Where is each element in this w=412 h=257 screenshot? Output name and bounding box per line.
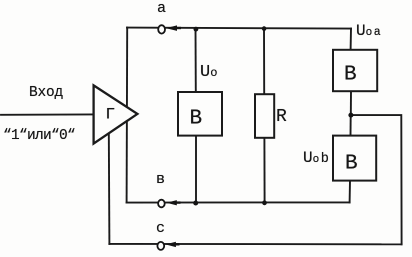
wire block B1 to node в rail bbox=[195, 136, 197, 203]
resistor R label bbox=[276, 107, 287, 127]
wire left vertical from top rail to node в rail bbox=[126, 28, 129, 203]
op-amp U1 generator Г bbox=[94, 85, 138, 143]
wire top rail node a bbox=[127, 28, 351, 29]
wire junction to right edge and down to node c rail bbox=[351, 115, 402, 244]
wire vertical top rail to resistor R bbox=[263, 28, 265, 94]
wire block B3 bottom to node в rail bbox=[349, 181, 351, 203]
node a label bbox=[157, 0, 166, 17]
junction at Uoa/Uob split bbox=[348, 113, 353, 118]
svg-text:В: В bbox=[190, 108, 203, 131]
resistor R bbox=[255, 94, 274, 138]
node a terminal circle bbox=[158, 25, 165, 33]
node в terminal circle bbox=[158, 200, 165, 208]
wire input bbox=[1, 113, 93, 115]
label "1"или"0" bbox=[3, 128, 75, 144]
junction on top rail at B1 bbox=[194, 27, 199, 32]
label Uoa bbox=[356, 22, 381, 40]
wire block B2 bottom to junction bbox=[350, 91, 352, 115]
label Вход bbox=[29, 85, 63, 101]
svg-text:В: В bbox=[344, 64, 357, 87]
wire resistor R to node в rail bbox=[263, 138, 265, 203]
node c label bbox=[156, 220, 165, 237]
label Uo bbox=[200, 63, 217, 82]
wire lower-left vertical to node c rail bbox=[108, 131, 111, 244]
wire node c rail bbox=[109, 243, 401, 245]
wire vertical top rail to block B1 bbox=[195, 28, 197, 92]
arrowhead on top rail bbox=[166, 25, 177, 31]
node c terminal circle bbox=[157, 242, 164, 250]
block B1 converter В bbox=[178, 92, 222, 136]
junction on top rail at R bbox=[262, 26, 267, 31]
block B2 converter В (Uoa) bbox=[333, 50, 377, 91]
node в label bbox=[156, 171, 165, 188]
arrowhead on c rail bbox=[165, 242, 176, 247]
svg-text:Г: Г bbox=[106, 106, 116, 124]
junction on в rail at R bbox=[262, 200, 267, 205]
wire node в rail bbox=[127, 201, 350, 203]
svg-text:В: В bbox=[345, 153, 358, 176]
junction on в rail at B1 bbox=[193, 201, 198, 206]
wire junction down to block B3 bbox=[350, 115, 352, 135]
arrowhead on в rail bbox=[166, 200, 176, 205]
wire top rail right corner down to block B2 bbox=[350, 29, 352, 50]
block B3 converter В (Uob) bbox=[333, 136, 376, 181]
label Uob bbox=[303, 149, 329, 167]
